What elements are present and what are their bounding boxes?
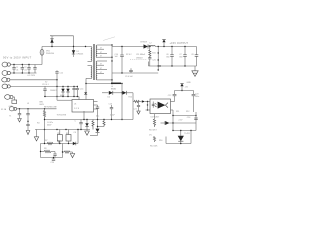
transformer T1 secondary winding <box>96 45 97 80</box>
capacitor C7 <box>179 46 187 66</box>
svg-text:C9 0.1uF: C9 0.1uF <box>125 76 134 78</box>
diode D1 blocking <box>72 36 83 57</box>
resistor R13 <box>153 119 155 127</box>
components between y129.5 and y143.5 <box>57 130 76 144</box>
ground output1 <box>187 66 199 84</box>
connector J1 pin 3 <box>2 78 10 82</box>
resistor R14 <box>153 137 155 143</box>
svg-text:3T: 3T <box>100 64 102 66</box>
junction dots bottom rail <box>159 65 185 66</box>
svg-text:0.1uF: 0.1uF <box>110 114 116 116</box>
svg-text:6T: 6T <box>100 68 102 70</box>
svg-text:F1 2A: F1 2A <box>1 108 7 111</box>
dashed divider <box>130 59 147 61</box>
wire rail y130.5 right <box>172 130 196 131</box>
box R5 <box>59 130 61 135</box>
capacitor C22 <box>168 91 177 102</box>
resistor R4 vertical <box>37 109 46 130</box>
cap to ground mid <box>133 102 140 115</box>
svg-text:C20: C20 <box>51 162 54 164</box>
TL431 U3 <box>178 130 184 144</box>
bracket rail <box>166 131 191 145</box>
svg-text:330: 330 <box>166 56 169 58</box>
U1 pins right <box>94 102 98 110</box>
capacitor C6 <box>166 46 174 66</box>
wire secondary top rail <box>112 46 144 48</box>
svg-text:R14 10K: R14 10K <box>150 145 158 147</box>
wire down from x133 <box>132 93 134 120</box>
svg-text:C11 680uF: C11 680uF <box>136 54 146 56</box>
svg-text:C24: C24 <box>187 117 190 119</box>
wire y115.5 <box>172 110 196 131</box>
wire rail y119.5 <box>45 111 134 120</box>
diode D6 <box>66 89 69 92</box>
svg-text:1%: 1% <box>149 134 152 136</box>
svg-text:P6KE200: P6KE200 <box>46 53 54 55</box>
resistor on rail <box>45 140 53 145</box>
svg-text:C6: C6 <box>74 132 76 134</box>
ground bottom <box>70 152 74 158</box>
resistor R3 <box>92 120 94 130</box>
wire clamp top <box>52 35 74 37</box>
svg-text:R5: R5 <box>57 133 59 135</box>
capacitor C13 <box>44 86 46 89</box>
svg-text:X2: X2 <box>45 82 47 84</box>
connector J1 pin 1 <box>2 62 10 67</box>
svg-text:UF4005: UF4005 <box>77 53 84 55</box>
svg-text:C22: C22 <box>168 95 171 97</box>
wire row2 <box>10 72 36 74</box>
svg-text:TOP224YN: TOP224YN <box>57 114 67 116</box>
wire output1 bottom rail <box>149 65 197 67</box>
svg-text:.01: .01 <box>16 69 19 71</box>
svg-text:R7: R7 <box>45 140 47 142</box>
svg-text:4T: 4T <box>100 72 102 74</box>
svg-text:U1: U1 <box>74 104 76 106</box>
junction dots row6 <box>19 108 45 109</box>
small caps right column <box>72 86 83 98</box>
ground left of bottom cluster <box>34 130 38 142</box>
capacitor C12 on x57 <box>55 70 63 96</box>
wire row1 <box>10 64 42 66</box>
svg-text:C13: C13 <box>42 84 45 86</box>
svg-text:R16: R16 <box>159 140 162 142</box>
zener right <box>187 112 198 131</box>
svg-text:1N5822: 1N5822 <box>136 58 143 60</box>
capacitor C20 below <box>51 157 56 164</box>
cap on rail <box>58 141 61 144</box>
small loop resistor <box>97 120 105 128</box>
diode D8 on rail <box>73 142 76 145</box>
text mid labels <box>126 54 146 56</box>
junction dots x57 <box>56 79 57 97</box>
cap near drain <box>84 92 87 94</box>
transformer secondary taps <box>97 45 112 80</box>
capacitor C23 <box>192 91 200 113</box>
resistor R8 inside loop <box>40 148 55 153</box>
svg-text:6T: 6T <box>100 52 102 54</box>
winding turn labels <box>100 48 102 74</box>
label BR1 <box>40 102 45 107</box>
wire row6 <box>17 108 57 110</box>
resistor R10 to opto <box>133 100 150 103</box>
transformer T1 core <box>93 44 94 80</box>
opto left vertical <box>146 102 151 111</box>
optocoupler U2 <box>150 99 171 114</box>
svg-text:R4: R4 <box>37 122 39 124</box>
junction column <box>158 46 159 71</box>
capacitor C3 <box>27 65 30 74</box>
connector J1 pin 4 <box>2 84 10 89</box>
svg-text:TL431: TL431 <box>184 133 189 135</box>
svg-text:BYW29: BYW29 <box>141 42 147 44</box>
terminal +15V <box>162 39 166 47</box>
svg-text:47u: 47u <box>96 115 99 117</box>
svg-text:GND: GND <box>187 82 192 84</box>
divider column <box>149 114 162 147</box>
vertical x78 right <box>75 120 79 143</box>
capacitor C8 <box>191 47 198 67</box>
wire rail y143.5 <box>41 143 79 144</box>
terminal box <box>9 100 17 108</box>
capacitor C15 control <box>96 105 99 120</box>
svg-text:R11: R11 <box>176 111 179 113</box>
svg-text:L3: L3 <box>27 103 29 105</box>
capacitor C16 <box>109 104 114 120</box>
resistor R9 right <box>62 151 73 153</box>
corner mark <box>148 62 150 67</box>
svg-text:R12: R12 <box>186 111 189 113</box>
output2 terminal <box>180 83 188 91</box>
svg-text:L2: L2 <box>150 43 152 45</box>
wire row4 <box>10 85 77 87</box>
svg-text:R10: R10 <box>129 96 132 98</box>
vertical x44.5 to bottom rail <box>44 130 46 144</box>
svg-text:3T: 3T <box>100 56 102 58</box>
second output diode label <box>136 58 143 60</box>
diode D7 <box>85 123 88 126</box>
svg-text:RETURN LINE: RETURN LINE <box>44 106 57 108</box>
secondary bus <box>111 44 112 84</box>
opto right pins <box>171 102 175 111</box>
svg-text:4T: 4T <box>100 48 102 50</box>
connector J3 <box>9 107 17 111</box>
svg-text:BEAD: BEAD <box>111 88 117 91</box>
svg-text:.01: .01 <box>24 69 27 71</box>
capacitor CY2 <box>26 109 30 135</box>
wire transformer bottom rail <box>86 78 122 90</box>
capacitor CY1 <box>9 109 21 122</box>
svg-text:D C S: D C S <box>74 108 80 110</box>
wire drain connect <box>85 83 86 100</box>
connector J1 pin 2 <box>2 71 10 76</box>
labels near R4 <box>47 122 53 127</box>
svg-text:1N4007: 1N4007 <box>50 90 57 92</box>
capacitor C19 <box>53 152 56 158</box>
diode D5 <box>61 89 64 92</box>
transformer T1 primary winding <box>88 47 92 62</box>
junction dots top rail <box>51 46 86 47</box>
diode D9 <box>161 120 197 125</box>
wire output1 top rail <box>155 46 196 48</box>
svg-text:C25: C25 <box>152 60 155 62</box>
svg-text:100u: 100u <box>195 96 199 98</box>
wire after diode <box>147 46 150 48</box>
svg-text:R8: R8 <box>44 148 46 150</box>
svg-text:330: 330 <box>179 56 182 58</box>
svg-text:U2 PC817: U2 PC817 <box>151 116 160 118</box>
svg-text:Y1: Y1 <box>9 116 11 118</box>
transformer T1 bias winding <box>86 66 92 79</box>
svg-text:600V: 600V <box>40 104 45 106</box>
capacitor C2 <box>21 65 27 74</box>
lower cluster caps / diode / resistor <box>79 119 94 130</box>
svg-text:C8: C8 <box>191 54 193 56</box>
capacitor C10 vertical <box>115 46 124 74</box>
wire top rail <box>42 46 90 48</box>
bridge diode row <box>42 82 70 97</box>
wire rail y96.5 <box>44 96 79 100</box>
diode D2 output rectifier <box>141 42 149 49</box>
svg-text:400V: 400V <box>47 125 52 127</box>
connector J2 pin 1 <box>5 95 15 100</box>
svg-text:90V to 265V INPUT: 90V to 265V INPUT <box>3 55 32 59</box>
bias rectifier diodes on y92.8 <box>102 91 133 99</box>
dark cap column <box>90 120 100 136</box>
capacitor C4 <box>28 65 37 77</box>
junction dots input <box>13 64 29 74</box>
fuse on bus <box>40 49 44 55</box>
box R6 <box>68 130 70 135</box>
bottom loop <box>41 144 63 158</box>
svg-text:R15: R15 <box>152 53 155 55</box>
svg-text:C21: C21 <box>133 109 136 111</box>
zener VR1 clamp <box>46 36 54 55</box>
inductor L2 <box>149 43 156 47</box>
svg-text:R6: R6 <box>66 133 68 135</box>
svg-text:C12: C12 <box>60 73 63 75</box>
ground mid <box>85 130 90 136</box>
capacitor C5 post diode <box>148 46 156 66</box>
svg-text:D4: D4 <box>108 97 110 99</box>
label T1 faint mark <box>103 37 115 41</box>
svg-text:+15V OUTPUT: +15V OUTPUT <box>170 41 189 45</box>
junction dots opto left <box>147 101 148 111</box>
wire mid rail secondary return <box>112 72 158 74</box>
svg-text:R13 49.9: R13 49.9 <box>149 129 157 131</box>
capacitor C9 <box>125 68 134 78</box>
wire vertical bus left <box>41 47 43 65</box>
vertical x122 lower <box>121 83 122 120</box>
wire rail y129.5 <box>35 129 90 130</box>
svg-text:R2 6.2: R2 6.2 <box>126 54 132 56</box>
svg-text:C16: C16 <box>109 104 112 106</box>
capacitor C17 <box>80 120 82 123</box>
wire output2 rail <box>175 90 194 92</box>
labels R11 R12 <box>176 111 189 113</box>
wire row3 <box>10 79 57 81</box>
svg-text:0.1 250V: 0.1 250V <box>28 75 36 77</box>
U1 pin left <box>57 97 72 101</box>
svg-text:C14: C14 <box>80 89 83 91</box>
capacitor C1 <box>12 65 18 74</box>
svg-text:0.1: 0.1 <box>46 84 49 86</box>
IC U1 TOP224 box <box>72 100 94 113</box>
